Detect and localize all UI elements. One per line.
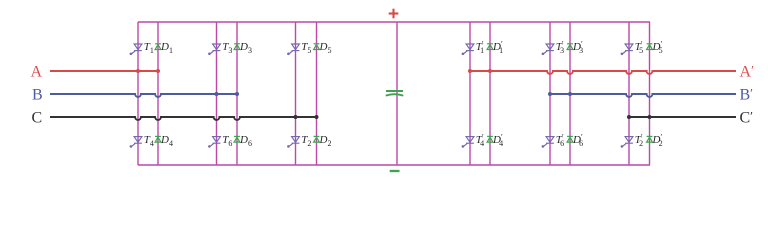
wire leg T1'/T4' vertical — [469, 22, 471, 165]
diode D4 — [155, 136, 161, 142]
wire phase C input — [50, 117, 317, 120]
thyristor T2 — [287, 137, 299, 148]
wire phase C&#8242; output — [629, 116, 736, 118]
node C-D5 junction — [315, 115, 319, 119]
wire leg T5/T2 vertical — [295, 22, 297, 165]
node C-T5 junction — [294, 115, 298, 119]
diode D3' — [567, 44, 573, 50]
node A-T1 junction — [136, 69, 140, 73]
diode D2 — [314, 136, 320, 142]
diode D1' — [487, 44, 493, 50]
diode D1 — [155, 44, 161, 50]
wire phase B input — [50, 94, 237, 97]
diode D4' — [487, 136, 493, 142]
wire bottom DC bus — [138, 164, 650, 166]
thyristor T6 — [208, 137, 220, 148]
svg-text:D2: D2 — [319, 134, 332, 148]
svg-text:T5: T5 — [301, 41, 311, 55]
svg-text:T4: T4 — [144, 134, 154, 148]
label + (positive DC rail) — [389, 9, 399, 19]
wire leg D3'/D6' vertical — [569, 22, 571, 165]
wire DC-link capacitor branch — [396, 22, 398, 165]
svg-text:D1: D1 — [160, 41, 173, 55]
thyristor T5' — [621, 44, 633, 55]
node B-T3 junction — [215, 92, 219, 96]
wire leg T1/T4 vertical — [137, 22, 139, 165]
node A&#8242;-T1&#8242; junction — [468, 69, 472, 73]
node C&#8242;-D5&#8242; junction — [648, 115, 652, 119]
svg-text:T′2: T′2 — [635, 133, 643, 148]
svg-text:D3: D3 — [239, 41, 252, 55]
svg-text:C: C — [32, 110, 43, 127]
svg-text:C′: C′ — [740, 109, 754, 127]
svg-text:B′: B′ — [740, 86, 754, 104]
svg-text:D5: D5 — [319, 41, 332, 55]
thyristor T1' — [462, 44, 474, 55]
node B&#8242;-D3&#8242; junction — [568, 92, 572, 96]
wire phase A input — [50, 70, 158, 72]
thyristor T4 — [130, 137, 142, 148]
thyristor T2' — [621, 137, 633, 148]
svg-text:D′6: D′6 — [572, 133, 583, 148]
diode D3 — [234, 44, 240, 50]
wire leg D3/D6 vertical — [236, 22, 238, 165]
wire leg D1'/D4' vertical — [489, 22, 491, 165]
thyristor T1 — [130, 44, 142, 55]
svg-text:D6: D6 — [239, 134, 252, 148]
svg-text:D′5: D′5 — [652, 40, 663, 55]
wire top DC bus — [138, 21, 650, 23]
label - (negative DC rail) — [390, 170, 400, 172]
node C&#8242;-T5&#8242; junction — [627, 115, 631, 119]
wire leg D5/D2 vertical — [316, 22, 318, 165]
svg-text:T′6: T′6 — [556, 133, 564, 148]
thyristor T3' — [542, 44, 554, 55]
wire leg T5'/T2' vertical — [628, 22, 630, 165]
thyristor T6' — [542, 137, 554, 148]
svg-text:D′1: D′1 — [492, 40, 503, 55]
svg-text:B: B — [32, 87, 43, 104]
diode D2' — [647, 136, 653, 142]
svg-text:D′3: D′3 — [572, 40, 583, 55]
wire phase A&#8242; output — [470, 71, 736, 74]
wire leg D5'/D2' vertical — [649, 22, 651, 165]
svg-text:T1: T1 — [144, 41, 154, 55]
node B&#8242;-T3&#8242; junction — [548, 92, 552, 96]
svg-text:T′4: T′4 — [476, 133, 484, 148]
svg-text:D4: D4 — [160, 134, 173, 148]
diode D6 — [234, 136, 240, 142]
svg-text:A: A — [31, 64, 43, 81]
diode D6' — [567, 136, 573, 142]
svg-text:T3: T3 — [222, 41, 232, 55]
diode D5 — [314, 44, 320, 50]
svg-text:T6: T6 — [222, 134, 232, 148]
svg-text:A′: A′ — [740, 63, 755, 81]
diode D5' — [647, 44, 653, 50]
wire leg T3'/T6' vertical — [549, 22, 551, 165]
svg-text:T2: T2 — [301, 134, 311, 148]
wire phase B&#8242; output — [550, 94, 736, 97]
node A-D1 junction — [156, 69, 160, 73]
wire leg T3/T6 vertical — [216, 22, 218, 165]
thyristor T4' — [462, 137, 474, 148]
svg-text:D′2: D′2 — [652, 133, 663, 148]
svg-text:T′1: T′1 — [476, 40, 484, 55]
node A&#8242;-D1&#8242; junction — [488, 69, 492, 73]
node B-D3 junction — [235, 92, 239, 96]
svg-text:D′4: D′4 — [492, 133, 503, 148]
thyristor T5 — [287, 44, 299, 55]
thyristor T3 — [208, 44, 220, 55]
svg-text:T′3: T′3 — [556, 40, 564, 55]
svg-text:T′5: T′5 — [635, 40, 643, 55]
capacitor C (DC link) — [386, 91, 404, 96]
wire leg D1/D4 vertical — [157, 22, 159, 165]
